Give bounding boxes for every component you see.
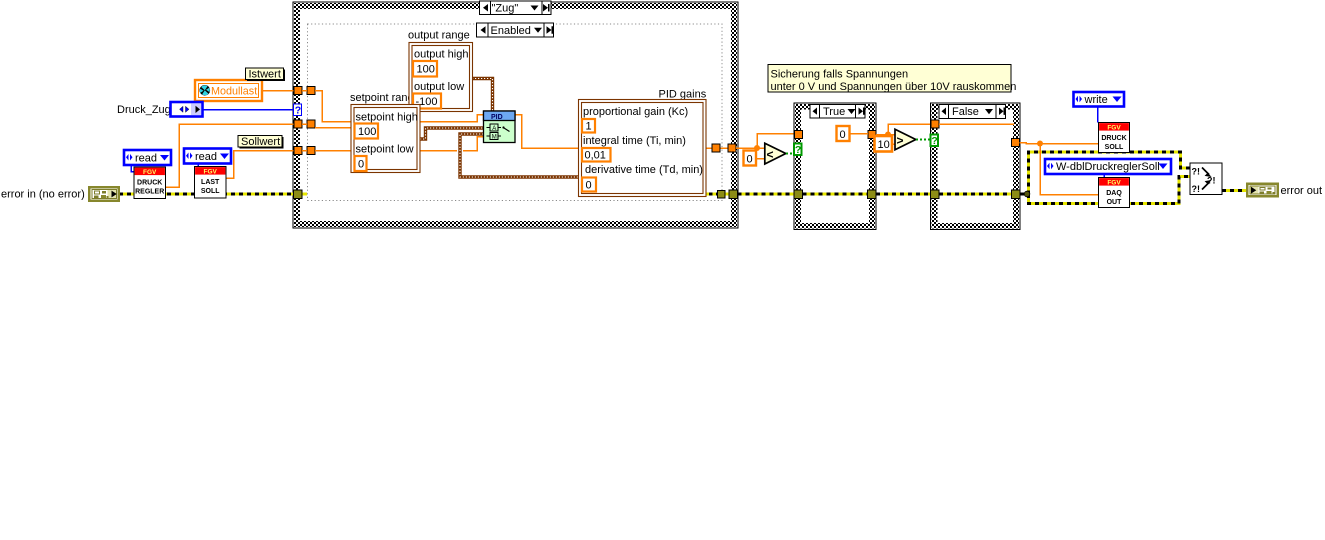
merge errors node (1190, 163, 1222, 195)
svg-text:setpoint low: setpoint low (356, 144, 414, 156)
svg-text:proportional gain (Kc): proportional gain (Kc) (583, 106, 688, 118)
error junction dot (1024, 191, 1030, 197)
tunnels on left case border (294, 87, 316, 199)
comment box Sicherung (768, 65, 1016, 94)
inner diagram disable structure (dotted) (308, 24, 723, 201)
svg-text:error out: error out (1281, 185, 1323, 197)
constant 0 before less-than (744, 151, 766, 166)
error wire junction and frame around right FGVs (1020, 152, 1190, 204)
boolean wire to False selector (916, 139, 931, 141)
constant 10 (875, 136, 896, 152)
case structure "Zug" outer frame (293, 2, 738, 228)
label Istwert (246, 68, 286, 81)
error wire through False (939, 193, 1012, 196)
wire C: tunnel C to PID process variable (315, 137, 483, 151)
svg-text:W-dblDruckreglerSoll: W-dblDruckreglerSoll (1056, 161, 1160, 173)
wire B: tunnel B stub into cluster (315, 127, 351, 129)
junction dot (1037, 141, 1043, 147)
wire A: tunnel A to PID setpoint (315, 91, 483, 122)
svg-text:FGV: FGV (143, 169, 157, 176)
junction dot (754, 145, 760, 151)
cluster wire: output range to PID top (472, 79, 493, 112)
svg-text:True: True (823, 106, 845, 118)
orange wire inside False (939, 123, 1014, 125)
orange wire False tunnel to DRUCK SOLL and DAQ OUT (1020, 143, 1099, 195)
svg-text:"Zug": "Zug" (492, 3, 519, 15)
svg-text:read: read (135, 153, 157, 165)
FGV DAQ OUT (1099, 178, 1130, 208)
svg-text:REGLER: REGLER (135, 189, 164, 196)
svg-text:>: > (897, 134, 904, 148)
svg-text:output range: output range (408, 30, 470, 42)
error in cluster icon (88, 186, 120, 202)
svg-text:Enabled: Enabled (491, 25, 531, 37)
svg-text:Modullast: Modullast (211, 86, 257, 98)
error out indicator icon (1246, 183, 1279, 198)
svg-text:0: 0 (747, 154, 753, 166)
FGV DRUCK REGLER (134, 167, 166, 199)
cluster wire: setpoint range to PID (420, 128, 483, 139)
selector label "Enabled" (477, 23, 554, 37)
svg-text:DRUCK: DRUCK (137, 180, 162, 187)
tunnel B outer (294, 120, 302, 128)
error wire between True and False (876, 193, 931, 196)
selector label False (939, 105, 1006, 119)
tunnel B inner (307, 120, 315, 128)
tunnels on False borders (931, 120, 1021, 199)
error wire between case and True struct (738, 193, 795, 196)
orange wires True tunnel to greater-than and False tunnel (876, 124, 931, 135)
svg-text:?!: ?! (1192, 184, 1201, 194)
svg-text:10: 10 (878, 139, 890, 151)
svg-text:integral time (Ti, min): integral time (Ti, min) (583, 135, 686, 147)
svg-text:read: read (195, 151, 217, 163)
error wire: error in to case border (119, 193, 307, 196)
svg-text:?!: ?! (1192, 167, 1201, 177)
svg-text:False: False (952, 106, 979, 118)
wire: Modullast to tunnel A (262, 90, 294, 92)
label Sollwert (238, 136, 284, 149)
blue stub read2 to FGV (197, 164, 199, 168)
FGV LAST SOLL (195, 167, 227, 199)
svg-text:Sicherung falls Spannungen: Sicherung falls Spannungen (771, 69, 909, 81)
case selector label "Zug" (480, 1, 552, 15)
blue wire write to FGV DRUCK SOLL (1097, 107, 1099, 123)
svg-text:<: < (767, 148, 774, 162)
svg-text:LAST: LAST (201, 179, 220, 186)
case structure False frame (931, 103, 1021, 230)
svg-text:Druck_Zug: Druck_Zug (117, 104, 171, 116)
cluster constant: PID gains (579, 100, 707, 197)
svg-text:FGV: FGV (1107, 179, 1121, 186)
svg-text:derivative time (Td, min): derivative time (Td, min) (585, 164, 703, 176)
junction dot (885, 132, 891, 138)
svg-text:output low: output low (414, 81, 464, 93)
error wire through True (803, 193, 868, 196)
blue stub to DAQ OUT (1103, 174, 1105, 178)
svg-text:0,01: 0,01 (585, 150, 606, 162)
read selector 2 (184, 149, 231, 164)
constant 0 inside True (837, 126, 869, 141)
svg-text:Istwert: Istwert (249, 69, 281, 81)
svg-text:error in (no error): error in (no error) (1, 189, 85, 201)
error wire stub right side inside (702, 193, 731, 196)
read selector 1 (124, 150, 171, 165)
case structure True frame (794, 103, 876, 230)
svg-text:DRUCK: DRUCK (1101, 135, 1126, 142)
cluster wire: PID gains to PID (460, 134, 578, 177)
svg-text:?: ? (795, 144, 801, 156)
svg-text:PID: PID (491, 114, 503, 121)
svg-text:100: 100 (358, 126, 376, 138)
tunnel A outer (294, 87, 302, 95)
svg-text:0: 0 (358, 159, 364, 171)
PID output wire orange (515, 115, 731, 149)
olive error tunnel left (294, 190, 303, 199)
inner tunnels right side (712, 144, 725, 198)
Modullast reference (orange box with globe) (195, 80, 262, 101)
wire: FGV LAST SOLL up to tunnel C (226, 151, 295, 179)
svg-text:?: ? (931, 135, 937, 147)
svg-text:Sollwert: Sollwert (241, 136, 280, 148)
case selector ? terminal (294, 104, 302, 116)
svg-text:M: M (492, 135, 497, 141)
svg-text:setpoint high: setpoint high (356, 112, 418, 124)
greater-than comparator (895, 129, 916, 150)
svg-text:0: 0 (840, 129, 846, 141)
tunnels on right case border (728, 144, 738, 199)
svg-text:OUT: OUT (1107, 199, 1123, 206)
Druck_Zug ring control (171, 102, 203, 117)
tunnel C outer (294, 147, 302, 155)
svg-text:100: 100 (417, 64, 435, 76)
svg-text:DAQ: DAQ (1106, 190, 1122, 197)
write selector (1074, 92, 1125, 107)
cluster constant: setpoint range (351, 105, 420, 173)
FGV DRUCK SOLL (1099, 123, 1130, 153)
cluster constant: output range (408, 30, 473, 112)
tunnels on True borders (794, 131, 876, 199)
svg-text:write: write (1084, 94, 1108, 106)
svg-text:A: A (492, 126, 496, 132)
svg-text:output high: output high (414, 49, 468, 61)
boolean wire to True selector (786, 153, 794, 155)
tunnel pair stubs (302, 91, 307, 151)
svg-text:0: 0 (586, 180, 592, 192)
svg-text:SOLL: SOLL (201, 188, 220, 195)
wire: Druck_Zug to ? terminal (blue) (202, 109, 294, 111)
svg-text:PID gains: PID gains (659, 89, 707, 101)
svg-text:1: 1 (586, 121, 592, 133)
orange wire from case tunnel with branch to True tunnel and less-than (736, 134, 794, 149)
svg-text:FGV: FGV (204, 168, 218, 175)
W-dblDruckreglerSoll selector (1045, 159, 1171, 174)
tunnel A inner (307, 87, 315, 95)
PID vi icon (484, 111, 516, 143)
svg-text:unter 0 V und Spannungen über: unter 0 V und Spannungen über 10V rausko… (771, 81, 1017, 93)
error wire merge to error out (1222, 189, 1246, 192)
less-than comparator (765, 143, 786, 164)
tunnel C inner (307, 147, 315, 155)
svg-text:?: ? (295, 104, 301, 116)
svg-text:SOLL: SOLL (1105, 144, 1124, 151)
svg-text:FGV: FGV (1107, 124, 1121, 131)
wire: FGV DRUCK REGLER up to tunnel B (166, 124, 295, 187)
blue stub read1 to FGV (131, 166, 134, 172)
selector label True (810, 105, 865, 119)
